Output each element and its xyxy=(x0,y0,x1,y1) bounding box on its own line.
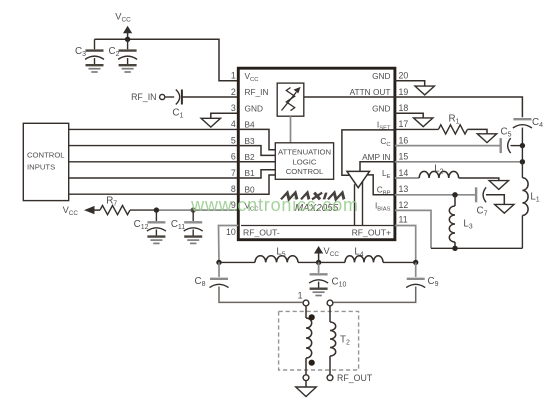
svg-text:C12: C12 xyxy=(134,219,149,231)
capacitor C4 xyxy=(513,118,531,120)
node RF_OUT terminal xyxy=(327,375,333,381)
node primary bottom terminal xyxy=(303,375,309,381)
capacitor C2 xyxy=(127,39,129,49)
wire B3 jog into logic xyxy=(238,146,275,156)
ground C12 bars xyxy=(147,235,165,237)
wire C9 to bottom rail xyxy=(333,287,416,303)
wire pin 20 to ground xyxy=(395,81,425,86)
wire pin 17 to R1 xyxy=(395,128,439,130)
wire right rail C5 to AMP IN node xyxy=(521,146,523,162)
svg-text:6: 6 xyxy=(231,152,236,162)
svg-text:AMP IN: AMP IN xyxy=(362,152,390,162)
svg-text:C2: C2 xyxy=(109,46,120,58)
wire pin 16 Cc to C5 xyxy=(395,145,501,147)
ground pin 18 xyxy=(414,118,433,127)
node transformer terminal 2 xyxy=(327,300,333,306)
wire R1 to ground xyxy=(467,129,487,133)
svg-text:14: 14 xyxy=(399,168,409,178)
svg-text:C11: C11 xyxy=(171,219,185,231)
node transformer terminal 1 xyxy=(303,300,309,306)
svg-text:15: 15 xyxy=(399,152,409,162)
wire B2 jog into logic xyxy=(238,161,275,163)
svg-text:C1: C1 xyxy=(172,108,183,120)
inductor L5 xyxy=(255,256,298,263)
svg-text:C10: C10 xyxy=(332,277,347,289)
svg-text:17: 17 xyxy=(399,119,409,129)
svg-text:2: 2 xyxy=(231,87,236,97)
svg-text:L5: L5 xyxy=(276,246,285,258)
wire C5 to right rail xyxy=(511,145,523,147)
wire pin 18 to ground xyxy=(395,113,423,118)
wire RF_IN to C1 xyxy=(165,96,174,98)
svg-text:B4: B4 xyxy=(245,120,256,130)
wire pin 19 ATTN OUT to C4 xyxy=(395,97,523,117)
wire C9 stub xyxy=(415,262,417,277)
capacitor C5 xyxy=(500,138,502,153)
inductor L3 xyxy=(454,195,456,206)
wire B1 jog into logic xyxy=(238,170,275,178)
wire Vcc top rail to pin 1 xyxy=(95,39,239,81)
svg-text:B1: B1 xyxy=(245,168,256,178)
svg-text:R7: R7 xyxy=(106,195,117,207)
svg-text:RF_IN: RF_IN xyxy=(245,87,269,97)
node C11 junction xyxy=(191,207,196,212)
inductor L4 xyxy=(345,256,383,263)
wire RF_OUT strip top line xyxy=(241,225,395,227)
wire pin 3 to ground xyxy=(211,113,239,118)
wire B4 control line xyxy=(69,128,239,130)
wire pin 11 RF_OUT+ to C9 xyxy=(395,226,416,263)
control inputs box xyxy=(23,123,68,200)
wire C8 to bottom rail xyxy=(219,287,303,303)
wire amp right input from pin 15 AMP IN xyxy=(360,162,395,172)
wire L4 to C9 node xyxy=(383,261,416,263)
svg-text:VCC: VCC xyxy=(324,246,340,258)
wire L5 to Vcc node xyxy=(298,261,345,263)
node AMP IN junction xyxy=(520,159,525,164)
svg-text:C9: C9 xyxy=(428,276,439,288)
op-amp IC U1 MAX2055 body xyxy=(238,68,395,240)
svg-text:C3: C3 xyxy=(75,46,86,58)
svg-text:7: 7 xyxy=(231,168,236,178)
svg-text:4: 4 xyxy=(231,119,236,129)
wire pin 10 RF_OUT- cell xyxy=(219,226,239,263)
svg-text:5: 5 xyxy=(231,135,236,145)
wire pin 13 CBP to C7 xyxy=(395,194,476,196)
svg-text:C4: C4 xyxy=(532,117,543,129)
svg-text:GND: GND xyxy=(372,71,390,81)
wire B2 control line xyxy=(69,161,239,163)
ground transformer xyxy=(296,387,317,397)
capacitor C1 xyxy=(176,90,180,105)
svg-text:R1: R1 xyxy=(449,113,460,125)
attenuator U1a box xyxy=(277,83,304,116)
transformer T2 dashed box xyxy=(279,311,359,370)
wire C1 to pin 2 / attenuator input xyxy=(182,96,277,98)
svg-text:18: 18 xyxy=(399,103,409,113)
resistor R1 xyxy=(438,125,467,134)
wire amp left input from pin 17 ISET xyxy=(342,130,395,175)
ground R1 xyxy=(477,134,496,143)
node L3 bottom junction xyxy=(452,246,457,251)
svg-text:RF_OUT-: RF_OUT- xyxy=(243,227,280,237)
power Vcc bottom arrow xyxy=(318,251,320,262)
svg-text:1: 1 xyxy=(231,71,236,81)
capacitor C12 xyxy=(155,210,157,221)
svg-text:L2: L2 xyxy=(434,164,443,176)
svg-text:www.cntronics.com: www.cntronics.com xyxy=(190,195,359,215)
capacitor C3 xyxy=(94,39,96,49)
wire amp feedback to pin 13 CBP xyxy=(367,175,395,195)
svg-text:12: 12 xyxy=(399,200,409,210)
power Vcc arrow left xyxy=(89,209,100,211)
attenuator arrow xyxy=(282,92,297,110)
svg-text:ATTENUATION: ATTENUATION xyxy=(278,148,331,157)
wire B0 control line xyxy=(69,193,239,195)
wire amp output right to RF_OUT+ xyxy=(362,181,364,226)
wire Vcc rail to pin 9 xyxy=(156,209,238,211)
node L3 top junction xyxy=(452,192,457,197)
svg-text:3: 3 xyxy=(231,103,236,113)
power Vcc top arrow xyxy=(127,31,129,40)
capacitor C8 xyxy=(218,262,220,277)
wire B1 control line xyxy=(69,177,239,179)
capacitor C7 xyxy=(475,187,477,202)
inductor L1 xyxy=(521,162,523,178)
svg-text:11: 11 xyxy=(399,215,408,225)
transformer phase dot top xyxy=(309,314,315,320)
svg-text:L3: L3 xyxy=(463,218,472,230)
wire C7 to ground xyxy=(486,195,504,205)
svg-text:VCC: VCC xyxy=(63,205,79,217)
wire R7 to C12 node xyxy=(130,209,156,211)
logo MAXIM xyxy=(281,193,346,200)
wire bias bottom return xyxy=(431,247,522,249)
capacitor C9 xyxy=(407,278,425,280)
capacitor C11 xyxy=(192,210,194,221)
node C8 top junction xyxy=(216,260,221,265)
wire pin 14 LE to L2 xyxy=(395,177,419,179)
svg-text:1: 1 xyxy=(298,291,303,301)
svg-text:RF_OUT: RF_OUT xyxy=(337,373,373,383)
svg-text:GND: GND xyxy=(372,103,390,113)
svg-text:19: 19 xyxy=(399,87,409,97)
svg-text:13: 13 xyxy=(399,184,409,194)
node Vcc C10 junction xyxy=(316,260,321,265)
svg-text:20: 20 xyxy=(399,71,409,81)
transformer T2 secondary winding xyxy=(329,306,331,322)
wire pin 12 IBIAS down xyxy=(395,210,431,248)
ground pin 20 xyxy=(415,86,434,95)
transformer T2 primary winding xyxy=(305,306,307,318)
svg-text:B2: B2 xyxy=(245,152,256,162)
ground C10 bars xyxy=(310,288,328,290)
op-amp amplifier triangle xyxy=(347,171,370,187)
svg-text:C7: C7 xyxy=(477,206,488,218)
node Vcc top junction xyxy=(125,37,130,42)
svg-text:CONTROL: CONTROL xyxy=(27,151,65,160)
ground C3 bars xyxy=(86,64,104,66)
svg-text:VCC: VCC xyxy=(115,12,131,24)
svg-text:L4: L4 xyxy=(354,246,363,258)
svg-text:GND: GND xyxy=(245,103,263,113)
svg-text:RF_OUT+: RF_OUT+ xyxy=(352,227,391,237)
wire amp output left to RF_OUT- xyxy=(354,184,356,225)
svg-text:T2: T2 xyxy=(340,335,350,347)
wire C4 to Cc node xyxy=(521,128,523,146)
node C9 top junction xyxy=(413,260,418,265)
wire B0 jog into logic xyxy=(238,175,275,194)
capacitor C10 xyxy=(318,262,320,273)
wire attenuator output to pin 19 ATTN OUT xyxy=(304,96,395,98)
svg-text:10: 10 xyxy=(226,227,236,237)
svg-text:C5: C5 xyxy=(501,127,512,139)
ground C7 xyxy=(495,204,514,213)
svg-text:C8: C8 xyxy=(195,276,206,288)
attenuation logic control box xyxy=(275,143,333,180)
wire B3 control line xyxy=(69,145,239,147)
node C5 junction xyxy=(520,143,525,148)
svg-text:ATTN OUT: ATTN OUT xyxy=(350,87,391,97)
ground pin 3 xyxy=(201,118,220,127)
ground C11 bars xyxy=(184,235,202,237)
svg-text:B3: B3 xyxy=(245,136,256,146)
node C12 junction xyxy=(154,207,159,212)
attenuator resistor zigzag xyxy=(286,88,294,111)
wire L2 to ground xyxy=(459,178,499,181)
inductor L2 xyxy=(419,171,458,178)
svg-text:B0: B0 xyxy=(245,184,256,194)
svg-text:CONTROL: CONTROL xyxy=(286,167,324,176)
svg-text:RF_IN: RF_IN xyxy=(131,92,156,102)
transformer phase dot bottom xyxy=(309,360,315,366)
wire rail to L5 xyxy=(219,261,255,263)
resistor R7 xyxy=(100,206,130,215)
svg-text:16: 16 xyxy=(399,135,409,145)
ground C2 bars xyxy=(119,64,137,66)
svg-text:LOGIC: LOGIC xyxy=(293,157,317,166)
svg-text:INPUTS: INPUTS xyxy=(27,162,55,171)
wire primary to ground xyxy=(305,381,307,387)
ground L2 xyxy=(489,181,508,190)
wire pin 15 AMP IN to right rail xyxy=(395,161,523,163)
wire attenuator to logic control xyxy=(290,116,292,143)
svg-text:L1: L1 xyxy=(530,192,539,204)
wire B4 jog into logic xyxy=(238,129,275,149)
svg-text:8: 8 xyxy=(231,184,236,194)
